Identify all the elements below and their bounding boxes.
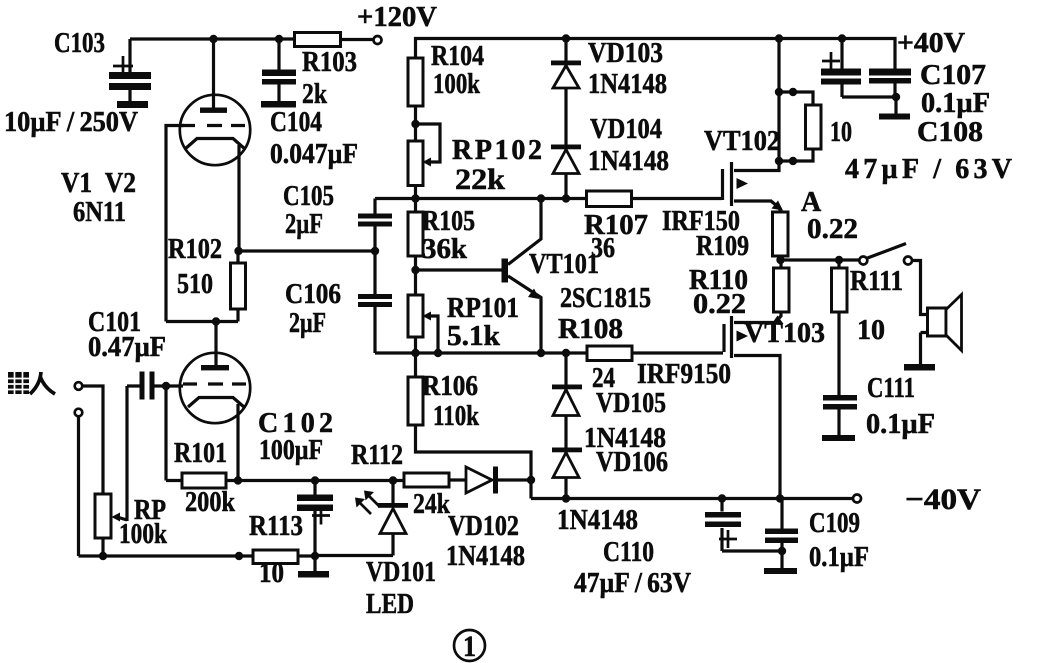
- ground (C109/C110): [764, 551, 797, 574]
- junction dot (LED node): [389, 476, 397, 484]
- diode VD103: [551, 39, 581, 199]
- wire bias row (R101 to R112): [226, 479, 404, 482]
- capacitor C109: [765, 499, 798, 552]
- switch lever: [868, 244, 907, 259]
- wire bottom row to LED: [315, 554, 393, 557]
- junction dot (VT101 collector / rail): [537, 194, 545, 202]
- capacitor C101: [127, 372, 166, 400]
- junction dot (VT103 drain / rail): [776, 494, 784, 502]
- potentiometer RP102: [408, 124, 440, 186]
- svg-text:10: 10: [830, 117, 852, 148]
- wire input ground down: [77, 417, 80, 557]
- svg-text:100k: 100k: [433, 69, 480, 100]
- svg-text:C109: C109: [809, 508, 860, 539]
- svg-text:510: 510: [177, 269, 213, 300]
- capacitor C111: [823, 395, 857, 435]
- svg-text:C106: C106: [285, 279, 341, 310]
- junction dot (C108 / rail): [838, 34, 846, 42]
- resistor R109: [773, 212, 789, 256]
- triode V1: [180, 39, 250, 165]
- resistor R108: [587, 346, 632, 361]
- junction dot (V1 cathode / C105 tap): [234, 247, 242, 255]
- resistor R106: [408, 377, 423, 425]
- capacitor C104: [262, 39, 296, 101]
- svg-text:2k: 2k: [302, 79, 327, 110]
- svg-text:10: 10: [857, 315, 885, 346]
- svg-text:C105: C105: [283, 181, 334, 212]
- upper drive rail: [375, 197, 722, 200]
- resistor R110: [774, 260, 790, 312]
- junction dot (C104 / rail): [275, 35, 283, 43]
- svg-text:VT101: VT101: [529, 249, 599, 280]
- wire C101 to RP wiper: [117, 386, 127, 521]
- wire switch to speaker: [912, 261, 928, 315]
- capacitor C110: [705, 499, 782, 552]
- diode VD101 LED: [355, 481, 408, 556]
- junction dot (VD102 output node): [527, 476, 535, 484]
- resistor 10 (VT102 drain parallel): [779, 88, 821, 165]
- wire R113 right lead: [298, 554, 315, 557]
- transistor VT101: [502, 199, 542, 354]
- junction dot (V2 plate node): [212, 317, 220, 325]
- svg-text:2µF: 2µF: [285, 209, 323, 240]
- resistor R105: [408, 212, 423, 256]
- svg-text:VD102: VD102: [448, 511, 519, 542]
- junction dot (V2 cathode / bias row): [234, 476, 242, 484]
- wire input to RP top: [83, 386, 104, 494]
- junction dot (C102 bottom node): [311, 552, 319, 560]
- mosfet VT103 (IRF9150): [724, 312, 784, 499]
- svg-text:24k: 24k: [413, 489, 450, 520]
- lower drive rail: [375, 351, 723, 354]
- svg-text:C103: C103: [54, 28, 105, 59]
- wire VT101 base: [416, 268, 503, 271]
- junction dot (drain / 10 ohm top): [775, 88, 783, 96]
- svg-text:47µF / 63V: 47µF / 63V: [574, 568, 691, 599]
- junction dot (RP101 wiper / rail): [434, 349, 442, 357]
- svg-text:RP102: RP102: [452, 135, 542, 166]
- switch contact left: [859, 257, 867, 265]
- svg-text:R112: R112: [351, 440, 403, 471]
- resistor R102: [231, 263, 246, 322]
- resistor R107: [587, 191, 632, 207]
- svg-text:1N4148: 1N4148: [588, 69, 667, 100]
- svg-text:LED: LED: [366, 589, 414, 620]
- svg-text:22k: 22k: [455, 163, 505, 196]
- svg-text:VT103: VT103: [744, 318, 825, 349]
- junction dot (R106 / rail): [411, 349, 419, 357]
- svg-text:10: 10: [259, 558, 284, 589]
- resistor R104: [408, 58, 423, 106]
- svg-text:0.047µF: 0.047µF: [270, 139, 358, 170]
- terminal -40V: [853, 495, 861, 503]
- svg-text:5.1k: 5.1k: [447, 321, 500, 352]
- ground (C103): [117, 101, 148, 108]
- capacitor C105: [358, 199, 392, 252]
- ground rail (input section): [79, 554, 254, 557]
- svg-text:0.22: 0.22: [807, 214, 858, 245]
- ground (C107/C108): [879, 97, 910, 120]
- mosfet VT102 (IRF150): [723, 41, 784, 212]
- resistor R112: [404, 473, 449, 487]
- svg-text:0.1µF: 0.1µF: [809, 542, 869, 573]
- capacitor C102: [297, 481, 333, 557]
- resistor R113: [253, 550, 298, 564]
- svg-text:0.22: 0.22: [693, 289, 746, 320]
- junction dot (C107/C108 ground node): [892, 93, 900, 101]
- svg-text:24: 24: [592, 363, 615, 394]
- junction dot (RP bottom): [99, 552, 107, 560]
- junction dot (rail / R113 left): [235, 552, 243, 560]
- capacitor C106: [358, 251, 392, 353]
- terminal +120V: [374, 36, 382, 44]
- ground (speaker): [904, 364, 935, 371]
- junction dot (V1 plate / rail): [209, 35, 217, 43]
- svg-text:VD101: VD101: [366, 557, 436, 588]
- -40V rail: [531, 497, 853, 500]
- junction dot (RP102 / rail): [411, 194, 419, 202]
- svg-text:1N4148: 1N4148: [588, 146, 669, 177]
- svg-text:C110: C110: [603, 537, 654, 568]
- junction dot (RP102 wiper tap): [411, 120, 419, 128]
- svg-text:6N11: 6N11: [73, 197, 126, 228]
- svg-text:10µF / 250V: 10µF / 250V: [4, 107, 138, 138]
- resistor R101: [166, 386, 226, 488]
- wire grid node to V2: [166, 384, 183, 387]
- svg-text:C104: C104: [270, 107, 322, 138]
- wire node A row: [781, 256, 860, 260]
- label input (Chinese): [8, 372, 55, 394]
- svg-text:100µF: 100µF: [259, 435, 323, 466]
- svg-text:2SC1815: 2SC1815: [560, 283, 651, 314]
- svg-text:+40V: +40V: [897, 28, 965, 59]
- svg-text:VD104: VD104: [590, 114, 662, 145]
- svg-text:0.1µF: 0.1µF: [921, 88, 990, 119]
- junction dot (VT101 emitter / rail): [537, 349, 545, 357]
- junction dot (VD105 / rail): [562, 349, 570, 357]
- wire tap to C105/C106 node: [239, 249, 376, 252]
- svg-text:R109: R109: [696, 231, 749, 262]
- speaker: [921, 295, 962, 365]
- wire +40V rail and main divider column: [416, 39, 896, 499]
- svg-text:R106: R106: [422, 371, 478, 402]
- resistor R103: [295, 33, 341, 47]
- switch contact right: [904, 257, 912, 265]
- svg-text:R102: R102: [168, 234, 222, 265]
- junction dot (drain / 10 ohm bottom): [775, 157, 783, 165]
- svg-text:100k: 100k: [119, 519, 167, 550]
- junction dot (VD103 / rail): [562, 34, 570, 42]
- svg-text:−40V: −40V: [905, 483, 981, 516]
- svg-text:1N4148: 1N4148: [446, 541, 525, 572]
- svg-text:IRF9150: IRF9150: [637, 359, 731, 390]
- junction dot (VT102 drain / rail): [775, 34, 783, 42]
- junction dot (C101 / grid node): [162, 382, 170, 390]
- svg-text:1: 1: [463, 630, 476, 663]
- svg-text:R108: R108: [558, 314, 623, 345]
- junction dot (VD106 / rail): [562, 494, 570, 502]
- svg-text:1N4148: 1N4148: [557, 505, 638, 536]
- svg-text:C107: C107: [920, 60, 986, 91]
- capacitor C107: [869, 69, 911, 98]
- diode VD104: [551, 145, 581, 174]
- svg-text:R105: R105: [422, 206, 475, 237]
- svg-text:0.1µF: 0.1µF: [866, 409, 935, 440]
- svg-text:RP101: RP101: [447, 293, 519, 324]
- svg-text:R113: R113: [249, 511, 303, 542]
- wire V1 cathode lead: [238, 145, 239, 263]
- svg-text:C111: C111: [867, 373, 915, 404]
- svg-text:V1 V2: V1 V2: [61, 168, 136, 199]
- svg-text:200k: 200k: [185, 487, 235, 518]
- svg-text:R103: R103: [302, 47, 357, 78]
- junction dot (VD104 / rail): [562, 194, 570, 202]
- triode V2: [180, 322, 250, 481]
- resistor R111: [832, 260, 848, 395]
- junction dot (R111 top): [835, 256, 843, 264]
- diode VD102: [449, 467, 531, 494]
- junction dot (VT101 base node): [411, 266, 419, 274]
- circled figure number 1: [454, 630, 485, 663]
- svg-text:36: 36: [591, 233, 615, 264]
- junction dot (C105/C106 tap): [371, 247, 379, 255]
- junction dot (C109/C110 ground node): [778, 547, 786, 555]
- wire R102 bottom to V2 plate: [166, 320, 238, 323]
- svg-text:0.47µF: 0.47µF: [88, 332, 166, 363]
- svg-text:VD103: VD103: [588, 38, 663, 69]
- capacitor C108: [821, 39, 896, 98]
- ground (C102 node): [298, 556, 329, 578]
- svg-text:110k: 110k: [433, 401, 479, 432]
- svg-text:VD106: VD106: [596, 447, 668, 478]
- svg-text:R111: R111: [850, 266, 903, 297]
- svg-text:R104: R104: [431, 41, 484, 72]
- input terminal (lower): [75, 409, 83, 417]
- wire V1 grid lead: [166, 126, 184, 322]
- svg-text:2µF: 2µF: [289, 308, 326, 339]
- input terminal (upper): [75, 382, 83, 390]
- diode VD105: [552, 353, 582, 499]
- junction dot (node A): [776, 256, 784, 264]
- svg-text:36k: 36k: [422, 234, 467, 265]
- ground (C111): [822, 435, 855, 441]
- junction dot (C102 node): [311, 476, 319, 484]
- ground (C104): [261, 101, 296, 108]
- svg-text:VT102: VT102: [704, 126, 780, 157]
- wire +120V rail (top left): [130, 37, 296, 40]
- wire R103 right lead to +120V terminal: [340, 38, 373, 41]
- potentiometer RP101: [408, 295, 438, 353]
- potentiometer RP: [95, 494, 120, 556]
- svg-text:+120V: +120V: [357, 2, 437, 33]
- junction dot (C110 / rail): [718, 494, 726, 502]
- svg-text:C108: C108: [917, 117, 983, 148]
- svg-text:R101: R101: [174, 438, 227, 469]
- capacitor C103: [109, 39, 151, 101]
- svg-text:47µF / 63V: 47µF / 63V: [845, 154, 1012, 185]
- diode VD106: [552, 448, 582, 478]
